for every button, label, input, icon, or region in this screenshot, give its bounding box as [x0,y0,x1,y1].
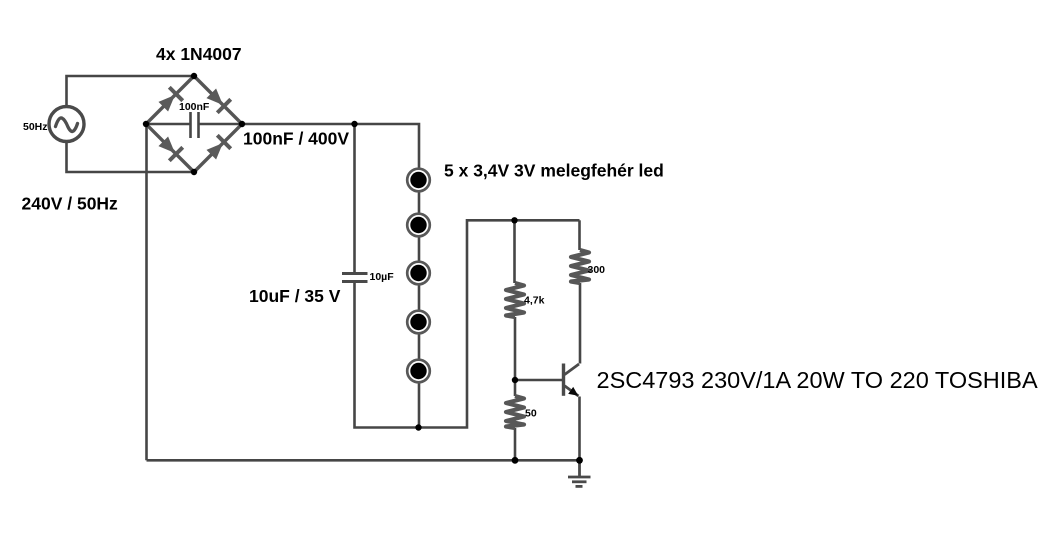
resistor R3 50 [506,396,524,428]
LED D5 [407,169,430,192]
svg-text:240V / 50Hz: 240V / 50Hz [22,194,119,214]
wire emitter to rail [578,397,581,461]
junction base node [512,377,518,383]
svg-text:50: 50 [525,408,537,420]
diode D1 (left node to top node) [157,87,183,113]
bridge edge bottom-right [194,124,242,172]
bridge edge left-bottom [146,124,194,172]
junction bridge right node [239,121,245,127]
wire 10uF branch top [353,124,356,272]
wire 4,7k branch [513,220,516,283]
bridge edge left-top [146,76,194,124]
junction 10uF tap [351,121,357,127]
svg-text:4x 1N4007: 4x 1N4007 [156,44,242,64]
capacitor C2 10uF [342,274,368,282]
junction bridge top node [191,73,197,79]
wire 300 branch [578,220,581,250]
junction bridge bottom node [191,169,197,175]
transistor Q1 2SC4793 [564,364,580,397]
wire base [515,379,562,382]
AC source V1 [49,107,84,142]
wire 10uF branch bottom [355,220,580,427]
resistor R2 300 [571,250,589,283]
svg-text:100nF / 400V: 100nF / 400V [243,129,349,149]
svg-text:100nF: 100nF [179,101,210,113]
diode D2 (top node to right node) [205,87,231,113]
svg-text:2SC4793 230V/1A 20W TO 220 TOS: 2SC4793 230V/1A 20W TO 220 TOSHIBA [597,367,1038,393]
capacitor 100nF inside bridge [146,112,242,138]
svg-text:10µF: 10µF [370,271,395,283]
junction top wire / 4,7k [511,217,517,223]
svg-text:10uF / 35 V: 10uF / 35 V [249,286,341,306]
junction rail / emitter [576,457,583,464]
svg-text:50Hz: 50Hz [23,121,48,133]
wire DC- : bridge left node down to bottom rail [145,124,148,460]
junction bridge left node [143,121,149,127]
LED D8 [407,311,430,334]
diode D3 (left node to bottom node) [157,135,183,161]
wire DC+ : bridge right node to LED column corner [242,124,419,428]
svg-text:4,7k: 4,7k [524,295,545,307]
LED D7 [407,262,430,285]
junction rail / 50 [512,457,519,464]
resistor R1 4,7k [506,283,524,317]
wire top from AC source to bridge top node [67,76,195,107]
junction LED bottom [415,424,421,430]
wire 50 branch [514,380,517,396]
ground [568,460,591,486]
svg-text:5 x 3,4V 3V melegfehér led: 5 x 3,4V 3V melegfehér led [444,161,664,181]
bridge edge top-right [194,76,242,124]
LED D6 [407,214,430,237]
wire bottom from AC source to bridge bottom node [67,142,195,173]
wire bottom rail [147,459,580,462]
svg-text:300: 300 [588,264,606,276]
diode D4 (bottom node to right node) [205,135,231,161]
LED D9 [407,360,430,383]
